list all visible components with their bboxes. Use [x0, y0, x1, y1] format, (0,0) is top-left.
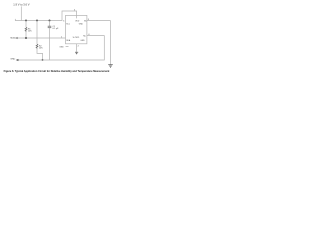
svg-text:Figure 8. Typical Application: Figure 8. Typical Application Circuit fo… — [4, 70, 110, 73]
node junction dot rail/R1 — [25, 20, 27, 22]
node junction dot rail/R2 — [36, 20, 38, 22]
resistor R2 — [37, 21, 43, 60]
wire ground rail arrowhead — [16, 59, 19, 61]
node junction dot R2 to ground rail — [42, 59, 44, 61]
svg-text:0.1 µF: 0.1 µF — [53, 28, 60, 30]
svg-text:SDA: SDA — [10, 37, 15, 40]
wire pin 3 to ground symbol right — [87, 21, 111, 65]
svg-text:10K: 10K — [39, 48, 43, 50]
ground symbol under IC — [75, 51, 78, 53]
svg-text:GND: GND — [79, 23, 84, 25]
svg-text:SCL: SCL — [66, 23, 70, 25]
wire VDD rail with left tick and jog up to IC top pin — [15, 11, 76, 21]
svg-text:VDD: VDD — [75, 20, 80, 22]
IC U1 box — [66, 15, 87, 43]
ground symbol right — [108, 64, 113, 66]
node junction dot R1/SDA — [25, 37, 27, 39]
svg-text:GND: GND — [80, 40, 85, 42]
svg-text:10K: 10K — [28, 31, 32, 33]
svg-text:1.9 V to 3.6 V: 1.9 V to 3.6 V — [13, 3, 29, 7]
svg-text:6: 6 — [63, 21, 64, 23]
wire pin 4 to ground rail — [18, 36, 104, 60]
svg-text:Si 7021: Si 7021 — [73, 37, 81, 39]
svg-text:GND: GND — [59, 46, 64, 48]
node junction dot rail/C1 — [49, 20, 51, 22]
IC GND stub pin 2 — [76, 44, 78, 52]
capacitor C1 0.1uF — [49, 21, 51, 27]
IC top pin stub inside — [76, 15, 78, 18]
resistor R1 — [25, 21, 27, 39]
wire SDA line with arrowhead to IC pin 1 — [15, 37, 18, 39]
svg-text:GND: GND — [10, 59, 15, 61]
wire from supply label down to VDD rail — [20, 6, 22, 20]
